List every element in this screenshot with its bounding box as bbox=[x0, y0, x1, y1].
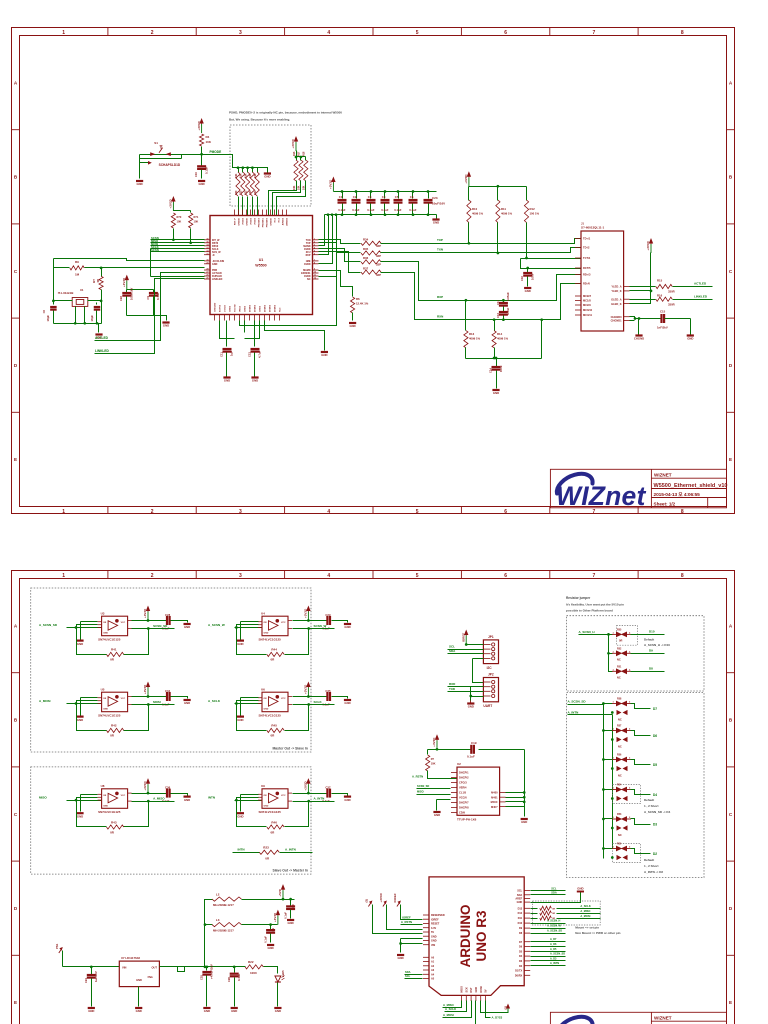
ground for cap row bbox=[432, 215, 439, 225]
wire R13/R14 bottom join bbox=[466, 318, 544, 359]
svg-text:SCHAPSLD1D: SCHAPSLD1D bbox=[159, 163, 181, 167]
wire XTAL lower with R9 bbox=[54, 267, 205, 269]
svg-text:MH-2029B-121?: MH-2029B-121? bbox=[213, 903, 234, 907]
svg-text:GND: GND bbox=[136, 978, 142, 982]
svg-text:C10: C10 bbox=[194, 172, 198, 178]
svg-text:A_INTN -> D2: A_INTN -> D2 bbox=[644, 870, 663, 874]
net label MISO bbox=[39, 796, 47, 800]
crystal X1 IT-L30-B1B bbox=[58, 288, 88, 306]
svg-text:1: 1 bbox=[62, 509, 65, 515]
wire PMODE to resistor bank bbox=[202, 155, 239, 168]
svg-text:B: B bbox=[14, 175, 18, 180]
svg-text:P$1: P$1 bbox=[55, 943, 59, 949]
svg-text:GND: GND bbox=[517, 901, 523, 904]
svg-text:GND: GND bbox=[184, 625, 190, 629]
svg-text:10K: 10K bbox=[431, 762, 436, 766]
wire R10-R12 top rail bbox=[469, 185, 527, 201]
svg-text:C: C bbox=[729, 812, 733, 817]
svg-text:SN74LVC1G125: SN74LVC1G125 bbox=[259, 637, 282, 641]
svg-text:It's flexibility. User want pu: It's flexibility. User want put the 5V10… bbox=[566, 603, 624, 607]
svg-text:Mount => set pin: Mount => set pin bbox=[575, 925, 599, 929]
svg-text:C28: C28 bbox=[165, 613, 171, 617]
svg-text:GND3D: GND3D bbox=[271, 218, 273, 226]
capacitor C22 10uF/16V bbox=[119, 288, 154, 316]
svg-text:R71: R71 bbox=[194, 215, 199, 219]
Arduino left pins power group bbox=[423, 914, 445, 947]
ground for cap bbox=[184, 700, 191, 705]
svg-text:PMODE1: PMODE1 bbox=[263, 217, 265, 227]
svg-text:R54: R54 bbox=[617, 784, 622, 787]
svg-text:A_D5: A_D5 bbox=[550, 948, 557, 951]
svg-text:0R: 0R bbox=[619, 639, 622, 643]
U2 left pins bbox=[451, 771, 469, 815]
SPI bus wires into U1 left pins bbox=[151, 236, 205, 252]
svg-text:0.1uF: 0.1uF bbox=[338, 208, 346, 212]
capacitor C1 0.1uF bbox=[338, 192, 347, 215]
resistor R23 0R bbox=[233, 845, 313, 860]
svg-text:9: 9 bbox=[314, 269, 315, 271]
capacitor C6 0.1uF bbox=[409, 192, 418, 215]
svg-text:W5500: W5500 bbox=[255, 264, 266, 268]
svg-text:NC: NC bbox=[618, 833, 622, 837]
svg-text:I2C: I2C bbox=[487, 666, 493, 670]
svg-text:A0: A0 bbox=[431, 956, 435, 959]
svg-text:1M: 1M bbox=[75, 272, 80, 276]
dashed box jumpers lower bbox=[567, 693, 705, 878]
svg-text:D0/RX: D0/RX bbox=[515, 974, 523, 977]
svg-text:NC3: NC3 bbox=[275, 217, 277, 222]
net A_MOSI bottom bbox=[443, 1001, 472, 1018]
resistor R22 1000 bbox=[245, 960, 277, 975]
svg-text:R23: R23 bbox=[249, 190, 252, 195]
svg-text:PSHD, PMODE0~2 is originally N: PSHD, PMODE0~2 is originally NC pin, bec… bbox=[229, 111, 342, 115]
svg-text:E: E bbox=[14, 1000, 17, 1005]
svg-text:MISO: MISO bbox=[39, 796, 47, 800]
svg-text:GND: GND bbox=[136, 182, 142, 186]
svg-text:IOREF: IOREF bbox=[402, 915, 411, 919]
svg-text:D5: D5 bbox=[653, 763, 657, 767]
svg-text:GND: GND bbox=[204, 1009, 210, 1013]
svg-text:B: B bbox=[729, 175, 733, 180]
wire U7 gnd bbox=[138, 987, 140, 1007]
Arduino right pins digital group2 bbox=[515, 941, 530, 978]
net label SCLK bbox=[293, 700, 335, 706]
svg-text:SN74LVC1G125: SN74LVC1G125 bbox=[98, 713, 121, 717]
svg-text:IOREF: IOREF bbox=[431, 918, 439, 921]
svg-text:Default: Default bbox=[644, 858, 654, 862]
svg-text:-D: -D bbox=[212, 254, 215, 257]
svg-text:R9: R9 bbox=[75, 260, 79, 264]
svg-text:R56: R56 bbox=[617, 754, 622, 757]
svg-text:OE: OE bbox=[103, 622, 107, 624]
svg-text:+3V3D: +3V3D bbox=[464, 174, 468, 184]
svg-text:PMODE0: PMODE0 bbox=[267, 217, 269, 227]
svg-text:GND: GND bbox=[267, 946, 273, 950]
ground for buffer bbox=[237, 698, 259, 722]
svg-text:A_SCSN_SD: A_SCSN_SD bbox=[568, 700, 587, 704]
svg-text:DHCP/7: DHCP/7 bbox=[459, 801, 469, 805]
svg-text:ACTLED: ACTLED bbox=[694, 282, 707, 286]
svg-text:DHCP/2: DHCP/2 bbox=[459, 776, 469, 780]
svg-text:GND: GND bbox=[475, 987, 478, 993]
power +3V3D for buffer bbox=[132, 682, 151, 698]
svg-text:A_INTN: A_INTN bbox=[314, 796, 325, 800]
svg-text:33P: 33P bbox=[376, 263, 381, 267]
svg-text:TCT/4: TCT/4 bbox=[583, 256, 591, 260]
connector JP1 I2C bbox=[483, 635, 498, 670]
svg-text:R16: R16 bbox=[657, 294, 663, 298]
svg-text:+3V3D: +3V3D bbox=[329, 179, 333, 189]
power (5) arrow at ICSP bbox=[481, 1001, 511, 1013]
svg-text:NC: NC bbox=[618, 774, 622, 778]
net label A_SCLK bbox=[208, 699, 221, 703]
svg-text:NC: NC bbox=[307, 278, 311, 281]
resistor R4 10K bbox=[200, 134, 212, 155]
resistor R27 0R SPI jumper bbox=[531, 909, 601, 915]
ground for buffer bbox=[76, 622, 97, 646]
svg-text:4099 1%: 4099 1% bbox=[501, 212, 513, 216]
LED LED5 power indicator bbox=[275, 970, 285, 1007]
power +5VD arrow bbox=[278, 884, 285, 899]
svg-text:A_SCLK: A_SCLK bbox=[208, 699, 221, 703]
svg-text:0.1uF: 0.1uF bbox=[264, 936, 268, 943]
svg-text:A_SCSN_H: A_SCSN_H bbox=[547, 920, 561, 923]
svg-text:R?: R? bbox=[431, 757, 435, 761]
svg-text:M400: M400 bbox=[491, 791, 498, 795]
svg-text:C14: C14 bbox=[489, 368, 493, 374]
svg-text:IOREF: IOREF bbox=[393, 893, 397, 902]
svg-text:GND: GND bbox=[431, 940, 437, 943]
svg-text:C4: C4 bbox=[382, 195, 386, 199]
svg-text:0R: 0R bbox=[110, 658, 115, 662]
svg-text:R36: R36 bbox=[363, 256, 369, 260]
power +3V3D for buffer bbox=[293, 778, 311, 794]
wire input bbox=[67, 626, 102, 629]
svg-text:A_SCSN_SD -> D4: A_SCSN_SD -> D4 bbox=[644, 810, 671, 814]
svg-text:R23: R23 bbox=[263, 845, 269, 849]
ground under C16 bbox=[524, 288, 531, 293]
svg-text:TOCVD: TOCVD bbox=[235, 304, 237, 312]
wires crystal connections bbox=[52, 259, 102, 324]
power +3V3D above R10-R12 bbox=[464, 171, 471, 186]
svg-text:R58: R58 bbox=[617, 698, 622, 701]
svg-text:MISO: MISO bbox=[461, 986, 464, 992]
svg-text:18pF: 18pF bbox=[90, 315, 94, 322]
svg-text:36: 36 bbox=[206, 239, 208, 241]
svg-text:C1: C1 bbox=[339, 195, 343, 199]
power +3V3D above U2 bbox=[432, 734, 439, 749]
ground for cap bbox=[344, 700, 351, 705]
svg-text:26: 26 bbox=[206, 275, 208, 277]
svg-text:LED5: LED5 bbox=[281, 970, 285, 977]
svg-text:C23: C23 bbox=[432, 196, 438, 200]
svg-text:A_D3: A_D3 bbox=[550, 957, 557, 960]
svg-text:+3V3D: +3V3D bbox=[304, 781, 308, 791]
ground for cap bbox=[344, 624, 351, 629]
svg-text:SDA: SDA bbox=[449, 649, 456, 653]
svg-text:(5): (5) bbox=[503, 1006, 507, 1009]
svg-text:D: D bbox=[14, 906, 18, 911]
net label IOREF bbox=[402, 915, 411, 919]
svg-text:AREF: AREF bbox=[515, 898, 522, 901]
svg-text:VCC: VCC bbox=[281, 622, 286, 624]
capacitor C5 0.1uF bbox=[394, 192, 403, 215]
svg-text:C37: C37 bbox=[325, 786, 331, 790]
svg-text:10nF: 10nF bbox=[531, 273, 535, 280]
svg-text:AVDD3: AVDD3 bbox=[282, 217, 285, 225]
svg-text:GND: GND bbox=[77, 718, 83, 722]
svg-text:GND3D: GND3D bbox=[239, 218, 241, 226]
svg-text:D9: D9 bbox=[649, 649, 653, 653]
svg-text:NC: NC bbox=[617, 676, 621, 680]
svg-text:GND3: GND3 bbox=[230, 305, 232, 312]
svg-text:C36: C36 bbox=[165, 786, 171, 790]
net label PMODE bbox=[210, 150, 222, 154]
svg-text:R4: R4 bbox=[206, 135, 210, 139]
wires arduino GND pins bbox=[399, 939, 422, 953]
svg-text:+3V3D: +3V3D bbox=[143, 608, 147, 618]
svg-text:A5: A5 bbox=[431, 978, 435, 981]
svg-text:C34: C34 bbox=[165, 689, 171, 693]
net stub ACTLED bbox=[95, 273, 205, 341]
svg-text:A_SCSN_H -> D10: A_SCSN_H -> D10 bbox=[644, 643, 670, 647]
svg-text:8: 8 bbox=[681, 573, 684, 579]
wires D10 D9 D8 bbox=[531, 920, 566, 934]
svg-text:U6: U6 bbox=[261, 687, 265, 691]
svg-text:D1/TX: D1/TX bbox=[515, 970, 522, 973]
wire input bbox=[235, 799, 263, 802]
power +3V3D above R70 bbox=[169, 196, 176, 211]
wire JP1 nets SCL SDA bbox=[448, 643, 484, 682]
resistor R8 0R vertical bbox=[92, 267, 103, 301]
jumper pair R56 to D5 bbox=[602, 754, 657, 778]
svg-text:B: B bbox=[729, 718, 733, 723]
svg-text:10K: 10K bbox=[177, 220, 182, 224]
svg-text:GND: GND bbox=[88, 1009, 94, 1013]
ground right of U2 bbox=[521, 819, 528, 824]
svg-text:7: 7 bbox=[593, 30, 596, 36]
svg-text:10K: 10K bbox=[249, 173, 252, 178]
capacitor C28 0.1uF bbox=[149, 613, 188, 630]
svg-text:RESERVED: RESERVED bbox=[431, 914, 445, 917]
svg-text:GND: GND bbox=[103, 805, 108, 807]
svg-text:+3V3D: +3V3D bbox=[143, 781, 147, 791]
svg-text:A_SCLK: A_SCLK bbox=[580, 904, 591, 908]
power +3V3D for cap row bbox=[329, 177, 336, 192]
svg-text:C: C bbox=[14, 812, 18, 817]
svg-text:C: C bbox=[729, 269, 733, 274]
wire CHGND branch bbox=[638, 317, 641, 334]
ground under C10 bbox=[198, 181, 205, 186]
svg-text:A_RSTN: A_RSTN bbox=[401, 920, 412, 924]
capacitor C13 4.3nF bbox=[496, 307, 510, 321]
svg-text:OE: OE bbox=[103, 698, 107, 700]
svg-text:GND: GND bbox=[224, 379, 230, 383]
svg-text:LINKLED: LINKLED bbox=[694, 294, 708, 298]
svg-text:D8: D8 bbox=[649, 667, 653, 671]
svg-text:GLED_K: GLED_K bbox=[611, 302, 622, 306]
svg-text:A_SCLK: A_SCLK bbox=[445, 1007, 456, 1011]
svg-text:+3V3D: +3V3D bbox=[197, 120, 201, 130]
power +3V3D arrow at L3 bbox=[273, 910, 280, 925]
svg-text:R21: R21 bbox=[240, 190, 243, 195]
capacitor C6 18pF bbox=[42, 307, 57, 324]
svg-text:GND: GND bbox=[349, 324, 355, 328]
svg-text:JP1: JP1 bbox=[488, 635, 494, 639]
resistor R20 pulldown bbox=[235, 168, 240, 216]
svg-text:C6: C6 bbox=[42, 309, 46, 313]
svg-text:R18: R18 bbox=[303, 151, 306, 156]
svg-text:GND: GND bbox=[344, 798, 350, 802]
svg-text:33: 33 bbox=[206, 247, 208, 249]
svg-text:R44: R44 bbox=[271, 648, 277, 652]
svg-text:4.7uF: 4.7uF bbox=[258, 350, 262, 358]
svg-text:RXP: RXP bbox=[306, 254, 311, 257]
svg-text:R51: R51 bbox=[617, 666, 622, 669]
capacitor C29 0.1uF bbox=[309, 613, 348, 630]
svg-text:D: D bbox=[729, 363, 733, 368]
svg-text:AVDE3: AVDE3 bbox=[264, 304, 267, 312]
svg-text:VCC: VCC bbox=[121, 795, 126, 797]
resistor R16 330R bbox=[630, 294, 675, 307]
svg-text:GND: GND bbox=[212, 263, 218, 266]
svg-text:X1: X1 bbox=[80, 288, 84, 292]
svg-text:10K: 10K bbox=[293, 185, 296, 190]
capacitor C30 0.1uF at 5VD bbox=[284, 900, 296, 919]
svg-text:3V3D3: 3V3D3 bbox=[251, 217, 253, 224]
capacitor C37 0.1uF bbox=[309, 786, 348, 803]
power +3V3D for buffer bbox=[132, 778, 151, 794]
svg-text:R12: R12 bbox=[530, 207, 536, 211]
capacitor C4 0.1uF bbox=[381, 192, 390, 215]
svg-text:C13: C13 bbox=[496, 313, 500, 319]
dashed option box around PMODE resistors bbox=[230, 125, 311, 206]
svg-text:E: E bbox=[14, 457, 17, 462]
switch S1 SCHAPSLD1D bbox=[148, 141, 181, 167]
J1 left pin stubs and labels bbox=[575, 237, 593, 318]
svg-text:GND: GND bbox=[287, 921, 293, 925]
svg-text:4Tab: 4Tab bbox=[147, 976, 153, 979]
svg-text:B: B bbox=[14, 718, 18, 723]
svg-text:A_SCSN_H: A_SCSN_H bbox=[579, 630, 595, 634]
svg-text:GND: GND bbox=[493, 391, 499, 395]
svg-text:5: 5 bbox=[314, 250, 315, 252]
svg-text:SCSN_W: SCSN_W bbox=[314, 624, 327, 628]
svg-text:18pF: 18pF bbox=[46, 315, 50, 322]
wire ICSP gnd down bbox=[475, 1001, 477, 1024]
svg-text:RESET: RESET bbox=[431, 923, 440, 926]
svg-text:Slave Out -> Master In: Slave Out -> Master In bbox=[272, 869, 308, 873]
svg-text:1: 1 bbox=[62, 30, 65, 36]
svg-text:4: 4 bbox=[327, 509, 330, 515]
svg-text:R55: R55 bbox=[617, 629, 622, 632]
drawing frame border bbox=[12, 571, 735, 1024]
resistor R6 12.4K 1% RSET bbox=[319, 271, 369, 321]
resistor R16 PMODE pullup bbox=[293, 151, 298, 190]
wire GND up symbol bbox=[531, 886, 585, 902]
resistor R37 33R bbox=[319, 252, 382, 278]
resistor R44 0R feedback bbox=[237, 628, 309, 662]
ground under crystal bbox=[95, 335, 102, 340]
svg-text:4099 1%: 4099 1% bbox=[497, 337, 509, 341]
svg-text:C16: C16 bbox=[520, 276, 524, 282]
svg-text:A_SCSN_W: A_SCSN_W bbox=[208, 623, 225, 627]
svg-text:+3V3D: +3V3D bbox=[379, 892, 383, 902]
svg-text:0R: 0R bbox=[552, 908, 555, 910]
svg-text:GND: GND bbox=[275, 1009, 281, 1013]
svg-text:U9: U9 bbox=[261, 784, 265, 788]
svg-text:R57: R57 bbox=[617, 725, 622, 728]
svg-text:Resistor jumper: Resistor jumper bbox=[566, 596, 591, 600]
capacitor C14 10nF bbox=[489, 357, 504, 389]
svg-text:A: A bbox=[14, 80, 18, 85]
svg-text:SCSN: SCSN bbox=[151, 248, 159, 252]
wires arduino right group2 bbox=[531, 938, 566, 965]
svg-text:2: 2 bbox=[151, 573, 154, 579]
svg-text:CD/9: CD/9 bbox=[459, 811, 465, 815]
label slave out master in bbox=[272, 869, 308, 873]
svg-text:U1: U1 bbox=[259, 258, 264, 262]
svg-text:LINKLED: LINKLED bbox=[212, 278, 223, 281]
resistor R14 4.99K 1% bbox=[492, 318, 509, 358]
svg-text:ARDUINO: ARDUINO bbox=[458, 905, 473, 968]
svg-text:D8: D8 bbox=[519, 932, 523, 935]
svg-text:JP2: JP2 bbox=[488, 673, 494, 677]
svg-text:+3V3D: +3V3D bbox=[304, 608, 308, 618]
svg-text:D7: D7 bbox=[653, 707, 657, 711]
svg-text:5: 5 bbox=[416, 573, 419, 579]
svg-text:8: 8 bbox=[681, 509, 684, 515]
capacitor C10 0.1uF bbox=[194, 155, 209, 179]
ground under C14 bbox=[492, 390, 499, 395]
svg-text:U5: U5 bbox=[101, 687, 105, 691]
wire RXP net bbox=[381, 262, 581, 301]
svg-text:Default: Default bbox=[644, 798, 654, 802]
svg-text:B1VN3: B1VN3 bbox=[220, 304, 222, 312]
svg-text:D12: D12 bbox=[518, 912, 523, 915]
wires U2 left inputs bbox=[417, 784, 451, 810]
svg-text:Sheet: 1/2: Sheet: 1/2 bbox=[654, 501, 676, 506]
svg-text:SCL: SCL bbox=[449, 645, 455, 649]
svg-text:D13: D13 bbox=[518, 907, 523, 910]
jumper R52 to D9 bbox=[609, 635, 665, 662]
svg-text:10uF/16V: 10uF/16V bbox=[130, 288, 134, 300]
wire SCL to x565 bbox=[531, 886, 566, 890]
svg-text:330R: 330R bbox=[668, 302, 675, 306]
Arduino bottom ICSP pins bbox=[461, 986, 488, 1001]
net stub LINKLED bbox=[95, 279, 205, 354]
svg-text:+3V3D: +3V3D bbox=[143, 684, 147, 694]
svg-text:SCLK: SCLK bbox=[314, 700, 323, 704]
ground under C25 bbox=[203, 1008, 210, 1013]
capacitor C34 0.1uF bbox=[149, 689, 188, 706]
jumper pair R54 to D4 bbox=[602, 784, 657, 804]
svg-text:R37: R37 bbox=[363, 266, 369, 270]
dashed box Master Out Slave In bbox=[31, 588, 311, 752]
svg-text:A_MOSI: A_MOSI bbox=[39, 699, 51, 703]
op-amp U1 W5500 main chip body bbox=[210, 216, 313, 315]
resistor R34 33R bbox=[319, 238, 382, 249]
net label A_RSTN at U2 bbox=[412, 775, 423, 779]
wire decoupling gnd rail bbox=[127, 316, 167, 321]
svg-text:A2: A2 bbox=[431, 965, 435, 968]
net label A_MISO bbox=[132, 796, 175, 802]
svg-text:TTUP-PH-1X6: TTUP-PH-1X6 bbox=[457, 818, 477, 822]
svg-text:M40?: M40? bbox=[491, 805, 498, 809]
op-amp U6 SN74LVC1G125 buffer bbox=[258, 687, 292, 717]
wire 3V3 riser to ferrites bbox=[204, 900, 213, 967]
svg-text:RXP: RXP bbox=[437, 295, 443, 299]
